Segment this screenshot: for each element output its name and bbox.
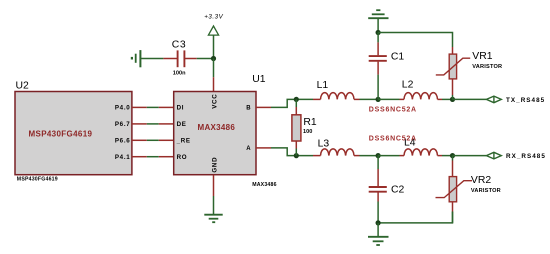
U1 left pin stubs DI DE _RE RO	[159, 107, 174, 156]
wire VR2 node to terminal	[453, 155, 487, 157]
inductor L3	[313, 139, 360, 156]
wire L1 to C1 node	[360, 98, 379, 100]
wire VR1 node to terminal	[453, 98, 487, 100]
node VCC junction	[211, 56, 216, 61]
wire L2 to VR1 node	[442, 98, 453, 100]
svg-text:TX_RS485: TX_RS485	[506, 97, 545, 104]
wire top ground to VR1	[378, 33, 452, 48]
capacitor C3	[163, 40, 196, 77]
varistor VR2	[436, 156, 501, 223]
svg-text:+3.3V: +3.3V	[204, 13, 223, 20]
power flag (sideways ground) left of C3	[132, 50, 141, 67]
wire C3 to +3.3V node	[197, 58, 214, 60]
wire A to RX row	[271, 148, 313, 156]
node VR2	[450, 153, 455, 158]
svg-text:_RE: _RE	[176, 138, 191, 145]
svg-text:U2: U2	[16, 80, 30, 91]
svg-text:VCC: VCC	[212, 94, 219, 109]
svg-text:A: A	[246, 146, 251, 152]
ground top right	[368, 10, 388, 32]
svg-text:B: B	[246, 106, 251, 112]
U1 pin B stub	[256, 106, 271, 108]
U2 pin stubs P4.0..P4.1	[132, 107, 147, 156]
svg-text:RO: RO	[177, 154, 188, 161]
svg-text:RX_RS485: RX_RS485	[506, 153, 546, 160]
node C2	[376, 153, 381, 158]
U1 VCC pin stub	[213, 77, 215, 91]
svg-text:VARISTOR: VARISTOR	[472, 64, 502, 70]
svg-text:L2: L2	[402, 80, 414, 91]
wire ground to C3	[140, 58, 163, 60]
wire L3 to C2 node	[360, 155, 379, 157]
svg-text:C2: C2	[391, 184, 405, 195]
svg-text:DSS6NC52A: DSS6NC52A	[369, 135, 417, 142]
capacitor C2	[369, 156, 405, 223]
node VR1	[450, 97, 455, 102]
wire B to TX row	[271, 99, 313, 107]
terminal TX_RS485	[486, 96, 545, 104]
ground bottom right	[368, 223, 389, 245]
U1 pin A stub	[256, 147, 271, 149]
svg-text:L1: L1	[317, 80, 329, 91]
chip U2 MSP430FG4619	[15, 80, 132, 182]
svg-text:P4.0: P4.0	[115, 105, 131, 112]
wire C1 node to L2	[378, 98, 399, 100]
svg-text:MSP430FG4619: MSP430FG4619	[17, 177, 58, 183]
svg-text:MSP430FG4619: MSP430FG4619	[29, 130, 93, 139]
node top ground junction	[376, 30, 381, 35]
wire node to U1 VCC pin	[213, 59, 215, 78]
svg-text:P6.7: P6.7	[115, 121, 131, 128]
svg-text:MAX3486: MAX3486	[252, 182, 276, 188]
svg-text:DSS6NC52A: DSS6NC52A	[369, 106, 417, 113]
svg-text:VARISTOR: VARISTOR	[471, 188, 501, 194]
inductor L2	[400, 80, 443, 100]
svg-text:C1: C1	[391, 52, 405, 63]
svg-text:GND: GND	[212, 157, 219, 173]
wire GND pin to ground	[213, 196, 215, 215]
terminal RX_RS485	[486, 152, 546, 160]
wire C2 node to L4	[378, 155, 399, 157]
svg-text:DE: DE	[177, 121, 187, 128]
svg-text:U1: U1	[252, 74, 266, 85]
svg-text:VR2: VR2	[471, 175, 491, 186]
chip U1 MAX3486	[174, 74, 277, 188]
svg-text:100n: 100n	[173, 71, 186, 77]
svg-text:L3: L3	[318, 139, 330, 150]
ground below U1	[204, 215, 222, 223]
node bottom ground junction	[376, 220, 381, 225]
wire L4 to VR2 node	[442, 155, 453, 157]
svg-text:P6.6: P6.6	[115, 138, 131, 145]
resistor R1	[292, 99, 317, 155]
inductor L1	[313, 80, 360, 99]
varistor VR1	[436, 47, 503, 99]
power symbol +3.3V	[204, 13, 223, 58]
capacitor C1	[369, 33, 405, 100]
inductor L4	[400, 138, 443, 156]
svg-text:P4.1: P4.1	[115, 154, 131, 161]
svg-text:C3: C3	[172, 40, 186, 51]
node RX-R1	[294, 153, 299, 158]
node C1	[376, 97, 381, 102]
svg-text:R1: R1	[303, 117, 317, 128]
node TX-R1	[294, 97, 299, 102]
svg-text:100: 100	[303, 129, 312, 135]
U1 GND pin stub	[213, 175, 215, 196]
wire C2 node to VR2 bottom	[378, 212, 452, 223]
svg-text:VR1: VR1	[472, 51, 492, 62]
svg-text:DI: DI	[177, 105, 185, 112]
wires U2 to U1	[147, 107, 159, 156]
svg-text:MAX3486: MAX3486	[198, 123, 236, 132]
